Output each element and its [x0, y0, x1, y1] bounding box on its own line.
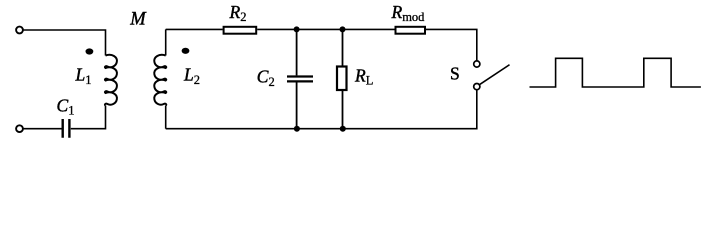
C2 branch stub top [296, 29, 298, 75]
C2 branch stub bottom [296, 83, 298, 129]
switch blade [480, 65, 510, 85]
terminal top-left [16, 27, 23, 34]
wire C1 to terminal bottom-left [23, 128, 61, 130]
wire top: L2 to R2 [166, 28, 223, 30]
inductor L2 [154, 55, 166, 106]
junction dot bottom RL [340, 126, 346, 132]
junction dot top RL [340, 26, 346, 32]
RL branch stub top [342, 29, 344, 65]
wire L2 top stub [165, 29, 167, 55]
RL branch stub bottom [342, 91, 344, 129]
resistor RL [337, 67, 347, 91]
resistor Rmod [396, 27, 426, 34]
svg-text:S: S [450, 64, 460, 84]
wire top: R2 to Rmod [257, 28, 395, 30]
capacitor C2 [287, 77, 313, 82]
wire top: Rmod to switch [426, 29, 477, 61]
terminal bottom-left [16, 125, 23, 132]
junction dot bottom C2 [294, 126, 300, 132]
capacitor C1 [63, 119, 70, 138]
inductor L1 [105, 55, 117, 106]
wire L1 bottom to C1 [71, 106, 106, 129]
junction dot top C2 [294, 26, 300, 32]
phase dot L2 [182, 48, 190, 54]
wire top-left to L1 [23, 30, 105, 56]
resistor R2 [224, 27, 257, 34]
switch S: top contact circle [474, 61, 480, 67]
waveform square pulses [530, 58, 701, 87]
wire switch bottom to bottom wire [166, 90, 477, 129]
wire L2 bottom stub [165, 106, 167, 129]
switch S: bottom contact circle [474, 84, 480, 90]
svg-text:M: M [129, 10, 147, 30]
phase dot L1 [86, 48, 94, 54]
